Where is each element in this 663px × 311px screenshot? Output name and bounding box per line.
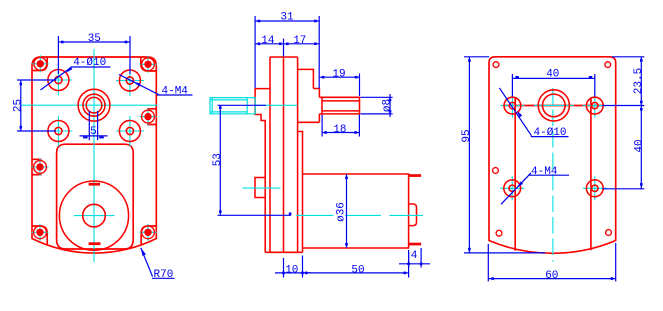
corner pocket top-right: [141, 57, 157, 71]
dimension 14 / 17: [255, 39, 319, 57]
svg-text:53: 53: [212, 153, 224, 166]
plate bottom edge: [265, 251, 302, 253]
screw centerline crosses: [32, 55, 157, 241]
lower-left terminal tab: [255, 178, 265, 198]
corner pocket bottom-left: [32, 226, 47, 244]
dimension 4: [399, 248, 430, 268]
small hole left mid: [493, 168, 499, 174]
inner side wall left: [514, 98, 516, 251]
screw mid-right: [142, 110, 155, 123]
svg-text:23.5: 23.5: [633, 68, 645, 94]
output shaft boss circles: [78, 89, 110, 121]
screw bottom-left: [34, 226, 47, 239]
screw top-right: [142, 58, 155, 71]
svg-text:4-M4: 4-M4: [531, 166, 558, 178]
svg-text:40: 40: [546, 69, 559, 81]
svg-text:95: 95: [461, 129, 473, 142]
hole top-right: [586, 97, 603, 114]
gearbox plate profile: [255, 57, 417, 252]
central shaft hole: [538, 90, 569, 121]
svg-text:18: 18: [333, 124, 346, 136]
upper-right step: [298, 69, 314, 88]
svg-text:4-Ø10: 4-Ø10: [534, 127, 567, 139]
plate top edge: [270, 56, 298, 58]
dimension 19: [319, 74, 359, 97]
inner pocket rounded rectangle: [57, 144, 134, 249]
motor terminal top: [409, 174, 422, 177]
screw bottom-right: [142, 226, 155, 239]
mid-left screw bracket: [32, 159, 42, 174]
dimension 53: [218, 105, 292, 215]
screw mid-left: [34, 161, 47, 174]
hole centerline crosses: [45, 65, 73, 96]
rear shaft (highlighted cyan): [210, 98, 255, 114]
tab centerline: [243, 187, 281, 189]
svg-text:4: 4: [411, 250, 418, 262]
dimension 25: [17, 80, 56, 131]
svg-text:14: 14: [261, 35, 275, 47]
svg-text:4-M4: 4-M4: [162, 86, 189, 98]
svg-text:R70: R70: [154, 269, 174, 281]
corner hole bottom-right: [606, 230, 612, 236]
svg-text:35: 35: [88, 33, 101, 45]
dimension diameter 36: [346, 174, 348, 248]
dimension 60: [488, 243, 615, 281]
keyway tick top: [89, 183, 100, 186]
dimension 50: [303, 252, 409, 278]
dimension 40 right: [603, 106, 645, 189]
hole 4-O10 top-left: [504, 97, 521, 114]
motor body: [303, 174, 409, 248]
dimension diameter 8: [361, 94, 393, 117]
label 4-M4 with leader: [119, 75, 193, 96]
gearbox body outline with R70 bottom arc: [32, 57, 156, 253]
main centerlines of left view: [22, 49, 158, 262]
corner hole top-right: [605, 62, 611, 68]
svg-text:17: 17: [293, 35, 306, 47]
mounting hole bottom-left: [48, 121, 69, 142]
right bearing boss: [298, 89, 320, 123]
gear housing big circle: [59, 181, 128, 250]
svg-text:19: 19: [332, 68, 345, 80]
hole bottom-right: [586, 180, 603, 197]
svg-text:40: 40: [634, 139, 646, 152]
keyway tick bottom: [89, 242, 101, 245]
hole 4-M4 bottom-left: [504, 180, 521, 197]
dimension 95: [464, 57, 545, 253]
svg-text:25: 25: [13, 99, 25, 112]
front output shaft: [319, 97, 359, 114]
motor end bump: [409, 204, 417, 226]
svg-text:31: 31: [280, 12, 294, 24]
label 4-O10 with leader: [41, 67, 111, 90]
dimension 31: [255, 16, 319, 89]
label 4-O10 with leader (right view): [499, 88, 568, 137]
mounting hole bottom-right: [119, 121, 140, 142]
middle view centerlines: [243, 105, 424, 215]
vertical centerline: [552, 88, 554, 262]
dimension 10: [275, 256, 311, 278]
dimension 40 top: [512, 74, 594, 97]
motor terminal bottom: [409, 243, 422, 246]
body outline with arc bottom: [489, 57, 616, 254]
corner hole bottom-left: [496, 230, 502, 236]
horizontal centerline through shaft: [22, 104, 158, 106]
screws (6) : ring + filled center: [34, 57, 155, 238]
hole row line: [504, 105, 603, 107]
hole crosses: [500, 94, 524, 118]
dimension 5: [80, 111, 108, 140]
svg-text:60: 60: [545, 270, 558, 282]
corner hole top-left: [493, 62, 499, 68]
svg-text:ø8: ø8: [382, 99, 394, 112]
central hole cross: [534, 104, 574, 106]
inner side wall right: [590, 98, 592, 251]
vertical centerline: [93, 49, 95, 262]
mid-right screw bracket: [147, 109, 156, 125]
plate vertical walls: [270, 57, 298, 252]
svg-text:5: 5: [90, 126, 97, 138]
svg-text:10: 10: [285, 264, 298, 276]
corner pocket bottom-right: [141, 226, 156, 244]
label R70 with leader: [141, 248, 175, 278]
svg-text:4-Ø10: 4-Ø10: [73, 57, 106, 69]
motor mount flange: [298, 132, 303, 253]
dimension 23.5: [603, 57, 645, 106]
corner pocket top-left: [32, 57, 47, 71]
big circle horizontal arm: [74, 215, 115, 217]
dimension 18: [322, 115, 359, 137]
left bearing boss: [255, 89, 270, 253]
screw top-left: [34, 57, 47, 70]
label 4-M4 with leader (right view): [501, 173, 569, 204]
mounting hole top-right: [119, 70, 140, 91]
svg-text:ø36: ø36: [336, 202, 348, 222]
right view centerlines: [500, 88, 607, 262]
dimension 35: [58, 36, 130, 74]
mounting hole 4-O10 top-left: [48, 70, 69, 91]
svg-text:50: 50: [351, 264, 364, 276]
